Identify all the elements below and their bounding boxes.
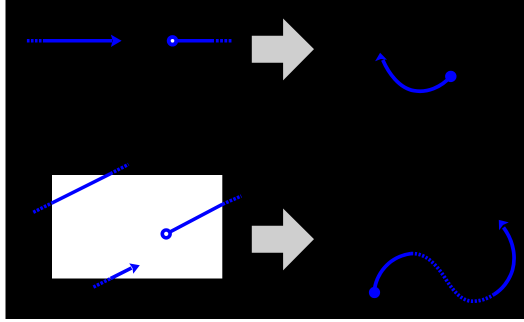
box fixed point trajectory: dashed tail outside box — [222, 196, 241, 204]
box small arrow: dashed tail outside box — [93, 279, 110, 288]
top-middle trajectory: solid shaft from fixed point — [173, 39, 215, 43]
bottom-right S-curve: solid rise from dot to hump — [374, 254, 411, 293]
white box (isolating neighborhood) — [52, 175, 222, 279]
top-right curved trajectory: arrowhead — [375, 53, 387, 62]
box small arrow: solid shaft — [111, 268, 132, 279]
top-right trajectory start point (filled blue dot) — [445, 71, 456, 82]
box fixed point (open circle) — [164, 232, 169, 237]
box diagonal trajectory: solid inside box — [52, 174, 110, 203]
gray block arrow (top) — [252, 19, 314, 81]
top-middle trajectory: dashed tail — [216, 39, 232, 43]
box diagonal trajectory: dashed tail lower-left — [33, 203, 52, 213]
top-left trajectory: arrowhead — [111, 35, 122, 47]
bottom-right S-curve: solid final upstroke — [494, 228, 514, 295]
top-left trajectory: dashed tail — [27, 39, 44, 43]
box diagonal trajectory: dashed tail upper-right — [110, 164, 128, 174]
top-middle fixed point (blue dot with white hole) — [167, 35, 178, 46]
top-left trajectory: solid shaft — [43, 39, 112, 43]
bottom-right S-curve: arrowhead — [499, 220, 509, 230]
box small arrow: arrowhead — [129, 263, 140, 273]
box fixed point trajectory: solid inside box — [166, 204, 222, 234]
gray block arrow (bottom) — [252, 209, 314, 271]
bottom-right S-curve start point (filled blue dot) — [369, 287, 380, 298]
top-right curved trajectory: solid arc — [383, 60, 451, 91]
bottom-right S-curve: dashed middle descent — [411, 254, 494, 302]
